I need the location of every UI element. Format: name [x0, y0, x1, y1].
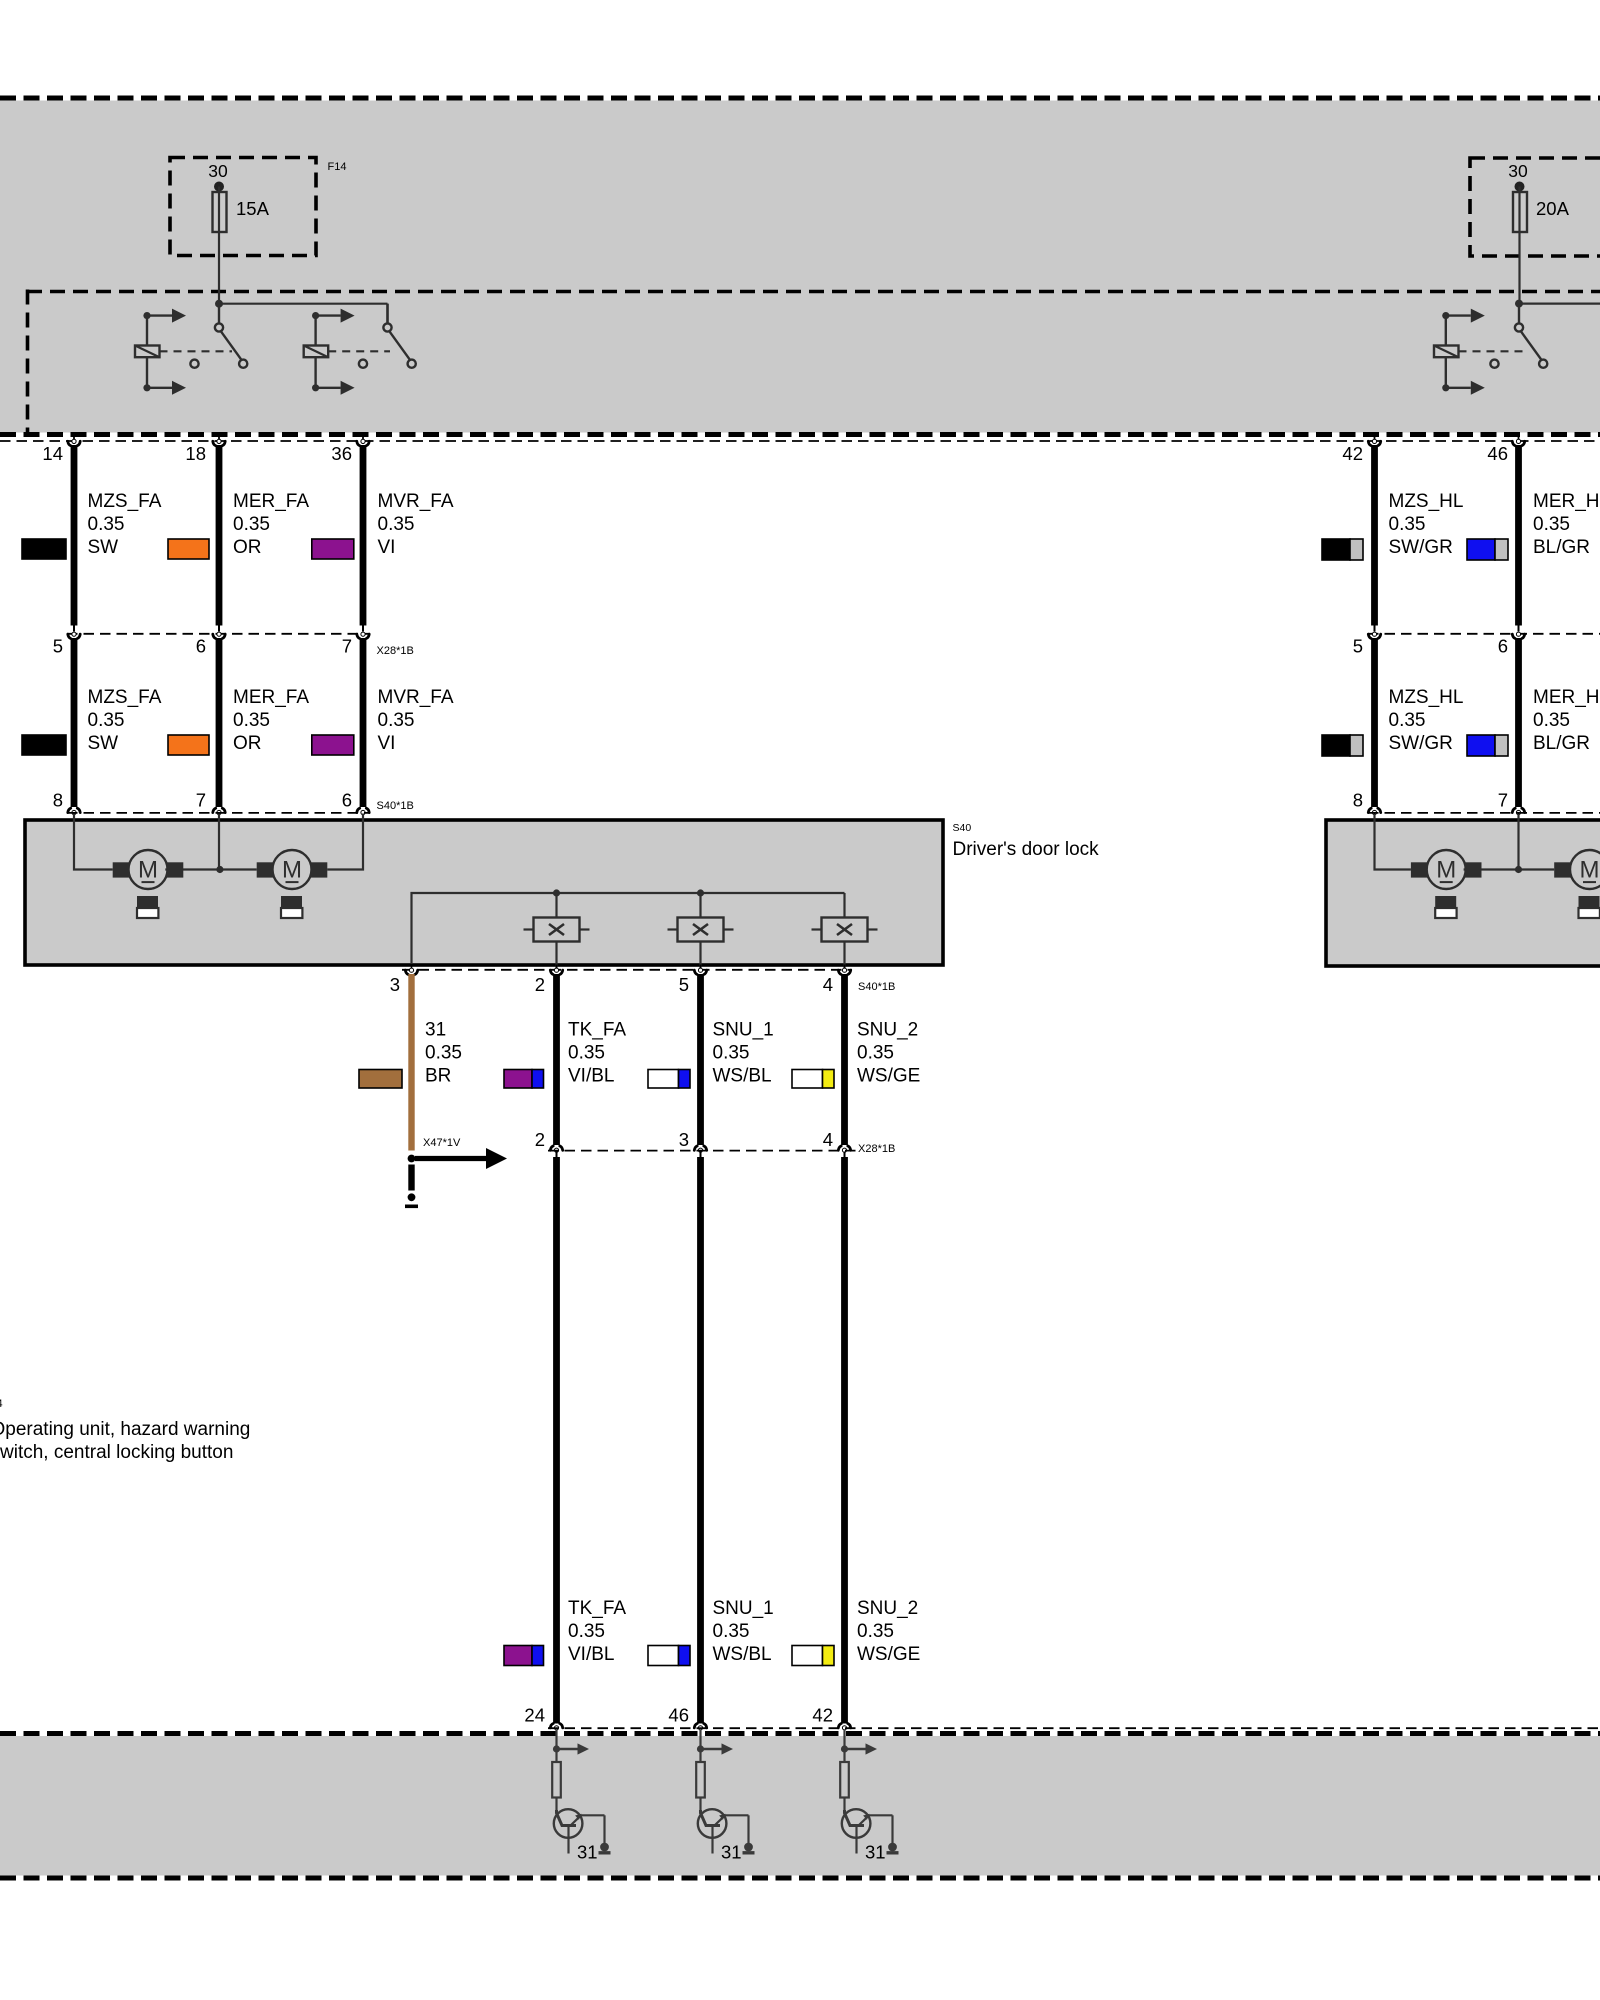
wire fuse F14 to relays [218, 232, 220, 304]
bottom band dashed top border [0, 1731, 1600, 1736]
connector line below ECU band [0, 440, 1600, 442]
colour chip VI/BL lower [504, 1646, 544, 1666]
wire pin 8 to motor M3 [1375, 814, 1411, 870]
svg-text:31: 31 [425, 1020, 446, 1041]
svg-text:0.35: 0.35 [378, 514, 415, 535]
ground node dot [408, 1193, 416, 1201]
svg-text:31: 31 [865, 1842, 886, 1863]
svg-text:MER_FA: MER_FA [233, 687, 309, 708]
colour chip VI [312, 735, 354, 755]
colour chip SW [22, 539, 66, 559]
resistor [840, 1762, 849, 1798]
wire into ECU pin at x=700.5 [699, 1729, 701, 1762]
fuse box F? dashed outline (right) [1470, 158, 1600, 256]
wire emitter to ground [747, 1815, 749, 1844]
label block wire TK_FA lower [568, 1598, 626, 1665]
wire MER_HL pin 6 (X28 to S40) [1512, 632, 1524, 821]
label block wire 31 [425, 1020, 462, 1087]
svg-text:5: 5 [1353, 636, 1363, 657]
wire pin 2 (S40 to X28) [550, 965, 562, 1153]
svg-text:TK_FA: TK_FA [568, 1020, 626, 1041]
svg-text:S40*1B: S40*1B [858, 981, 895, 993]
colour chip SW [22, 735, 66, 755]
label block wire TK_FA [568, 1020, 626, 1087]
junction node [841, 1745, 848, 1752]
svg-text:7: 7 [196, 790, 206, 811]
svg-text:S40: S40 [953, 822, 972, 834]
label block wire MVR_FA section A [378, 491, 454, 558]
motor M3 (lock motor) [1411, 850, 1482, 918]
connector S40*1B line right [1368, 812, 1600, 814]
svg-text:30: 30 [1508, 161, 1528, 181]
wire pin 7 drop (right) [1517, 814, 1519, 870]
svg-text:6: 6 [342, 790, 352, 811]
svg-text:15A: 15A [236, 198, 270, 219]
rear door lock box (right) [1326, 820, 1600, 966]
svg-text:2: 2 [535, 1129, 545, 1150]
svg-text:WS/BL: WS/BL [713, 1066, 772, 1087]
arrow (signal continues) [701, 1748, 722, 1750]
label block wire MER_FA section B [233, 687, 309, 754]
motor M2 (lock motor) [257, 850, 328, 918]
inner ECU dashed boundary horizontal [27, 290, 1600, 294]
wire resistor to transistor [699, 1798, 701, 1814]
svg-text:7: 7 [342, 636, 352, 657]
node fuse output junction [215, 300, 223, 308]
bus wire to microswitches [412, 893, 845, 963]
ground 31 [744, 1843, 753, 1852]
connector line above bottom ECU band [548, 1727, 1600, 1729]
wire pin 7 drop [218, 814, 220, 870]
wire MVR_FA pin 36 (ECU to X28) [357, 437, 369, 632]
svg-text:SW/GR: SW/GR [1389, 733, 1453, 754]
wire emitter to ground [603, 1815, 605, 1844]
svg-text:7: 7 [1498, 790, 1508, 811]
ECU zone top band (junction box electronics) [0, 101, 1600, 433]
ground 31 [888, 1843, 897, 1852]
svg-text:BR: BR [425, 1066, 451, 1087]
svg-text:0.35: 0.35 [568, 1621, 605, 1642]
label block wire SNU_1 [713, 1020, 774, 1087]
svg-text:0.35: 0.35 [88, 514, 125, 535]
svg-text:0.35: 0.35 [425, 1043, 462, 1064]
wire switch S1 to pin [555, 942, 557, 969]
svg-text:42: 42 [1342, 443, 1363, 464]
fuse symbol 20A [1518, 187, 1520, 233]
svg-text:M: M [282, 857, 302, 884]
motor M4 (lock motor, clipped) [1554, 850, 1600, 918]
svg-text:X28*1B: X28*1B [377, 645, 414, 657]
svg-text:0.35: 0.35 [1389, 710, 1426, 731]
arrow (signal continues) [557, 1748, 578, 1750]
svg-text:S40*1B: S40*1B [377, 800, 414, 812]
svg-text:OR: OR [233, 537, 262, 558]
wire pin 8 to motor M1 [74, 814, 113, 870]
colour chip BL/GR [1467, 735, 1508, 756]
label block wire SNU_2 [857, 1020, 920, 1087]
svg-text:3: 3 [679, 1129, 689, 1150]
svg-text:0.35: 0.35 [568, 1043, 605, 1064]
svg-text:0.35: 0.35 [713, 1043, 750, 1064]
wire junction to right edge [1519, 303, 1600, 305]
wire MZS_FA pin 14 (ECU to X28) [68, 437, 80, 632]
svg-text:SNU_1: SNU_1 [713, 1598, 774, 1619]
colour chip SW/GR [1322, 539, 1363, 560]
svg-text:6: 6 [1498, 636, 1508, 657]
top band dashed bottom border [0, 432, 1600, 437]
svg-text:VI/BL: VI/BL [568, 1644, 614, 1665]
svg-text:MER_HL: MER_HL [1533, 491, 1600, 512]
colour chip WS/GE lower [792, 1646, 834, 1666]
svg-text:MVR_FA: MVR_FA [378, 687, 454, 708]
bottom band dashed bottom border [0, 1876, 1600, 1881]
fuse box F14 dashed outline [170, 158, 316, 256]
svg-text:MZS_FA: MZS_FA [88, 687, 162, 708]
wire junction to relay K2 switch [219, 303, 388, 305]
svg-text:0.35: 0.35 [88, 710, 125, 731]
colour chip VI [312, 539, 354, 559]
colour chip BL/GR [1467, 539, 1508, 560]
transistor Q (driver stage) [698, 1809, 727, 1838]
svg-text:46: 46 [1487, 443, 1508, 464]
svg-text:F14: F14 [328, 161, 347, 173]
node motors junction [216, 866, 223, 873]
svg-text:5: 5 [679, 974, 689, 995]
svg-text:VI: VI [378, 733, 396, 754]
wire SNU_1 long run to operating unit [694, 1152, 706, 1730]
wire emitter to ground [891, 1815, 893, 1844]
node bus junction 2 [697, 889, 704, 896]
colour chip BR [359, 1070, 402, 1089]
svg-text:Operating unit, hazard warning: Operating unit, hazard warning [0, 1419, 250, 1440]
svg-text:30: 30 [208, 161, 228, 181]
svg-text:0.35: 0.35 [233, 514, 270, 535]
wire SNU_2 long run to operating unit [838, 1152, 850, 1730]
svg-text:3: 3 [390, 974, 400, 995]
label block wire SNU_1 lower [713, 1598, 774, 1665]
svg-text:SNU_2: SNU_2 [857, 1020, 918, 1041]
svg-text:MER_HL: MER_HL [1533, 687, 1600, 708]
wire MER_HL pin 46 (ECU to X28) [1512, 437, 1524, 632]
svg-text:8: 8 [53, 790, 63, 811]
node fuse output junction (right) [1515, 300, 1523, 308]
wire MZS_HL pin 5 (X28 to S40) [1368, 632, 1380, 821]
ground 31 [600, 1843, 609, 1852]
wire bus to switch S1 [555, 893, 557, 918]
colour chip WS/BL [648, 1070, 690, 1089]
wire resistor to transistor [843, 1798, 845, 1814]
wire 31 BR (brown ground wire) [405, 968, 417, 1150]
wire MER_FA pin 6 (X28 to S40) [213, 632, 225, 821]
node ground junction [408, 1155, 416, 1163]
svg-text:MZS_HL: MZS_HL [1389, 491, 1464, 512]
wire bus to switch S2 [699, 893, 701, 918]
svg-text:6: 6 [196, 636, 206, 657]
svg-text:5: 5 [53, 636, 63, 657]
connector X28*1B line right [1368, 633, 1600, 635]
svg-text:BL/GR: BL/GR [1533, 537, 1590, 558]
svg-text:M: M [138, 857, 158, 884]
fuse F14 symbol 15A [218, 187, 220, 233]
wire into ECU pin at x=556.5 [555, 1729, 557, 1762]
svg-text:M: M [1580, 857, 1600, 884]
inner ECU dashed boundary vertical [26, 290, 30, 434]
svg-text:MZS_HL: MZS_HL [1389, 687, 1464, 708]
arrow to X47*1V [415, 1156, 486, 1161]
node bus junction 1 [553, 889, 560, 896]
wire pin 4 (S40 to X28) [838, 965, 850, 1153]
svg-text:4: 4 [823, 974, 833, 995]
wire between motors (right) [1464, 868, 1555, 870]
label block wire MZS_FA section A [88, 491, 162, 558]
connector X28*1B line left [67, 633, 370, 635]
wire fuse to relay (right) [1518, 232, 1520, 304]
svg-text:WS/BL: WS/BL [713, 1644, 772, 1665]
wire MZS_HL pin 42 (ECU to X28) [1368, 437, 1380, 632]
resistor [552, 1762, 561, 1798]
svg-text:42: 42 [812, 1705, 833, 1726]
svg-text:MZS_FA: MZS_FA [88, 491, 162, 512]
wire motor M2 to pin 6 [327, 814, 363, 870]
wire into ECU pin at x=844.5 [843, 1729, 845, 1762]
svg-text:MVR_FA: MVR_FA [378, 491, 454, 512]
wire 411.5 gap above line [411, 965, 413, 969]
wire pin 5 (S40 to X28) [694, 965, 706, 1153]
svg-text:BL/GR: BL/GR [1533, 733, 1590, 754]
svg-text:20A: 20A [1536, 198, 1570, 219]
svg-text:18: 18 [185, 443, 206, 464]
wire switch S3 to pin [843, 942, 845, 969]
svg-text:24: 24 [524, 1705, 545, 1726]
svg-text:VI: VI [378, 537, 396, 558]
transistor Q (driver stage) [842, 1809, 871, 1838]
resistor [696, 1762, 705, 1798]
svg-text:SW: SW [88, 733, 119, 754]
svg-text:MER_FA: MER_FA [233, 491, 309, 512]
wire MZS_FA pin 5 (X28 to S40) [68, 632, 80, 821]
wire MVR_FA pin 7 (X28 to S40) [357, 632, 369, 821]
junction node [553, 1745, 560, 1752]
connector X28*1B lower line [548, 1150, 858, 1152]
label block wire MER_HL section A [1533, 491, 1600, 558]
relay K3 (right) [1434, 304, 1547, 395]
svg-text:TK_FA: TK_FA [568, 1598, 626, 1619]
wire switch S2 to pin [699, 942, 701, 969]
wire MER_FA pin 18 (ECU to X28) [213, 437, 225, 632]
svg-text:Driver's door lock: Driver's door lock [953, 839, 1100, 860]
microswitch S3 (door lock contact) [812, 918, 878, 942]
svg-text:X28*1B: X28*1B [858, 1143, 895, 1155]
svg-text:SW/GR: SW/GR [1389, 537, 1453, 558]
svg-text:0.35: 0.35 [378, 710, 415, 731]
ground lead bar [408, 1165, 414, 1191]
S40 driver's door lock box [25, 820, 943, 965]
colour chip OR [168, 735, 209, 755]
label block wire MZS_HL section A [1389, 491, 1464, 558]
label operating unit [0, 1419, 250, 1463]
microswitch S1 (door lock contact) [524, 918, 590, 942]
svg-text:0.35: 0.35 [857, 1621, 894, 1642]
svg-text:0.35: 0.35 [1389, 514, 1426, 535]
svg-text:WS/GE: WS/GE [857, 1644, 920, 1665]
svg-text:14: 14 [42, 443, 63, 464]
transistor Q (driver stage) [554, 1809, 583, 1838]
connector S40*1B line left [67, 812, 370, 814]
svg-text:31: 31 [721, 1842, 742, 1863]
svg-text:SNU_1: SNU_1 [713, 1020, 774, 1041]
label block wire MER_FA section A [233, 491, 309, 558]
relay K2 (central locking) [304, 304, 416, 395]
svg-text:WS/GE: WS/GE [857, 1066, 920, 1087]
connector S40*1B lower line [402, 969, 852, 971]
svg-text:0.35: 0.35 [1533, 710, 1570, 731]
node motors junction (right) [1515, 866, 1522, 873]
svg-text:8: 8 [1353, 790, 1363, 811]
junction node [697, 1745, 704, 1752]
motor M1 (lock motor) [113, 850, 184, 918]
colour chip SW/GR [1322, 735, 1363, 756]
svg-text:VI/BL: VI/BL [568, 1066, 614, 1087]
arrow (signal continues) [845, 1748, 866, 1750]
svg-text:0.35: 0.35 [1533, 514, 1570, 535]
svg-text:36: 36 [331, 443, 352, 464]
wire resistor to transistor [555, 1798, 557, 1814]
svg-text:46: 46 [668, 1705, 689, 1726]
label block wire MZS_HL section B [1389, 687, 1464, 754]
bottom ECU band (operating unit) [0, 1736, 1600, 1876]
svg-text:31: 31 [577, 1842, 598, 1863]
ground symbol bar [405, 1205, 418, 1209]
top band dashed top border [0, 96, 1600, 101]
label block wire MVR_FA section B [378, 687, 454, 754]
svg-text:0.35: 0.35 [713, 1621, 750, 1642]
colour chip WS/GE [792, 1070, 834, 1089]
wire bus to switch S3 [843, 893, 845, 918]
wire between motors [165, 868, 256, 870]
terminal 30 node (right) [1515, 182, 1525, 192]
svg-text:SNU_2: SNU_2 [857, 1598, 918, 1619]
svg-text:0.35: 0.35 [857, 1043, 894, 1064]
svg-text:M: M [1436, 857, 1456, 884]
label block wire MER_HL section B [1533, 687, 1600, 754]
svg-text:4: 4 [823, 1129, 833, 1150]
label block wire MZS_FA section B [88, 687, 162, 754]
svg-text:SW: SW [88, 537, 119, 558]
svg-text:switch, central locking button: switch, central locking button [0, 1442, 233, 1463]
colour chip OR [168, 539, 209, 559]
terminal 30 node [214, 182, 224, 192]
colour chip WS/BL lower [648, 1646, 690, 1666]
svg-text:OR: OR [233, 733, 262, 754]
relay K1 (central locking) [135, 304, 247, 395]
label block wire SNU_2 lower [857, 1598, 920, 1665]
svg-text:4: 4 [0, 1398, 3, 1410]
wire TK_FA long run to operating unit [550, 1152, 562, 1730]
colour chip VI/BL [504, 1070, 544, 1089]
svg-text:2: 2 [535, 974, 545, 995]
microswitch S2 (door lock contact) [668, 918, 734, 942]
svg-text:0.35: 0.35 [233, 710, 270, 731]
svg-text:X47*1V: X47*1V [423, 1137, 461, 1149]
